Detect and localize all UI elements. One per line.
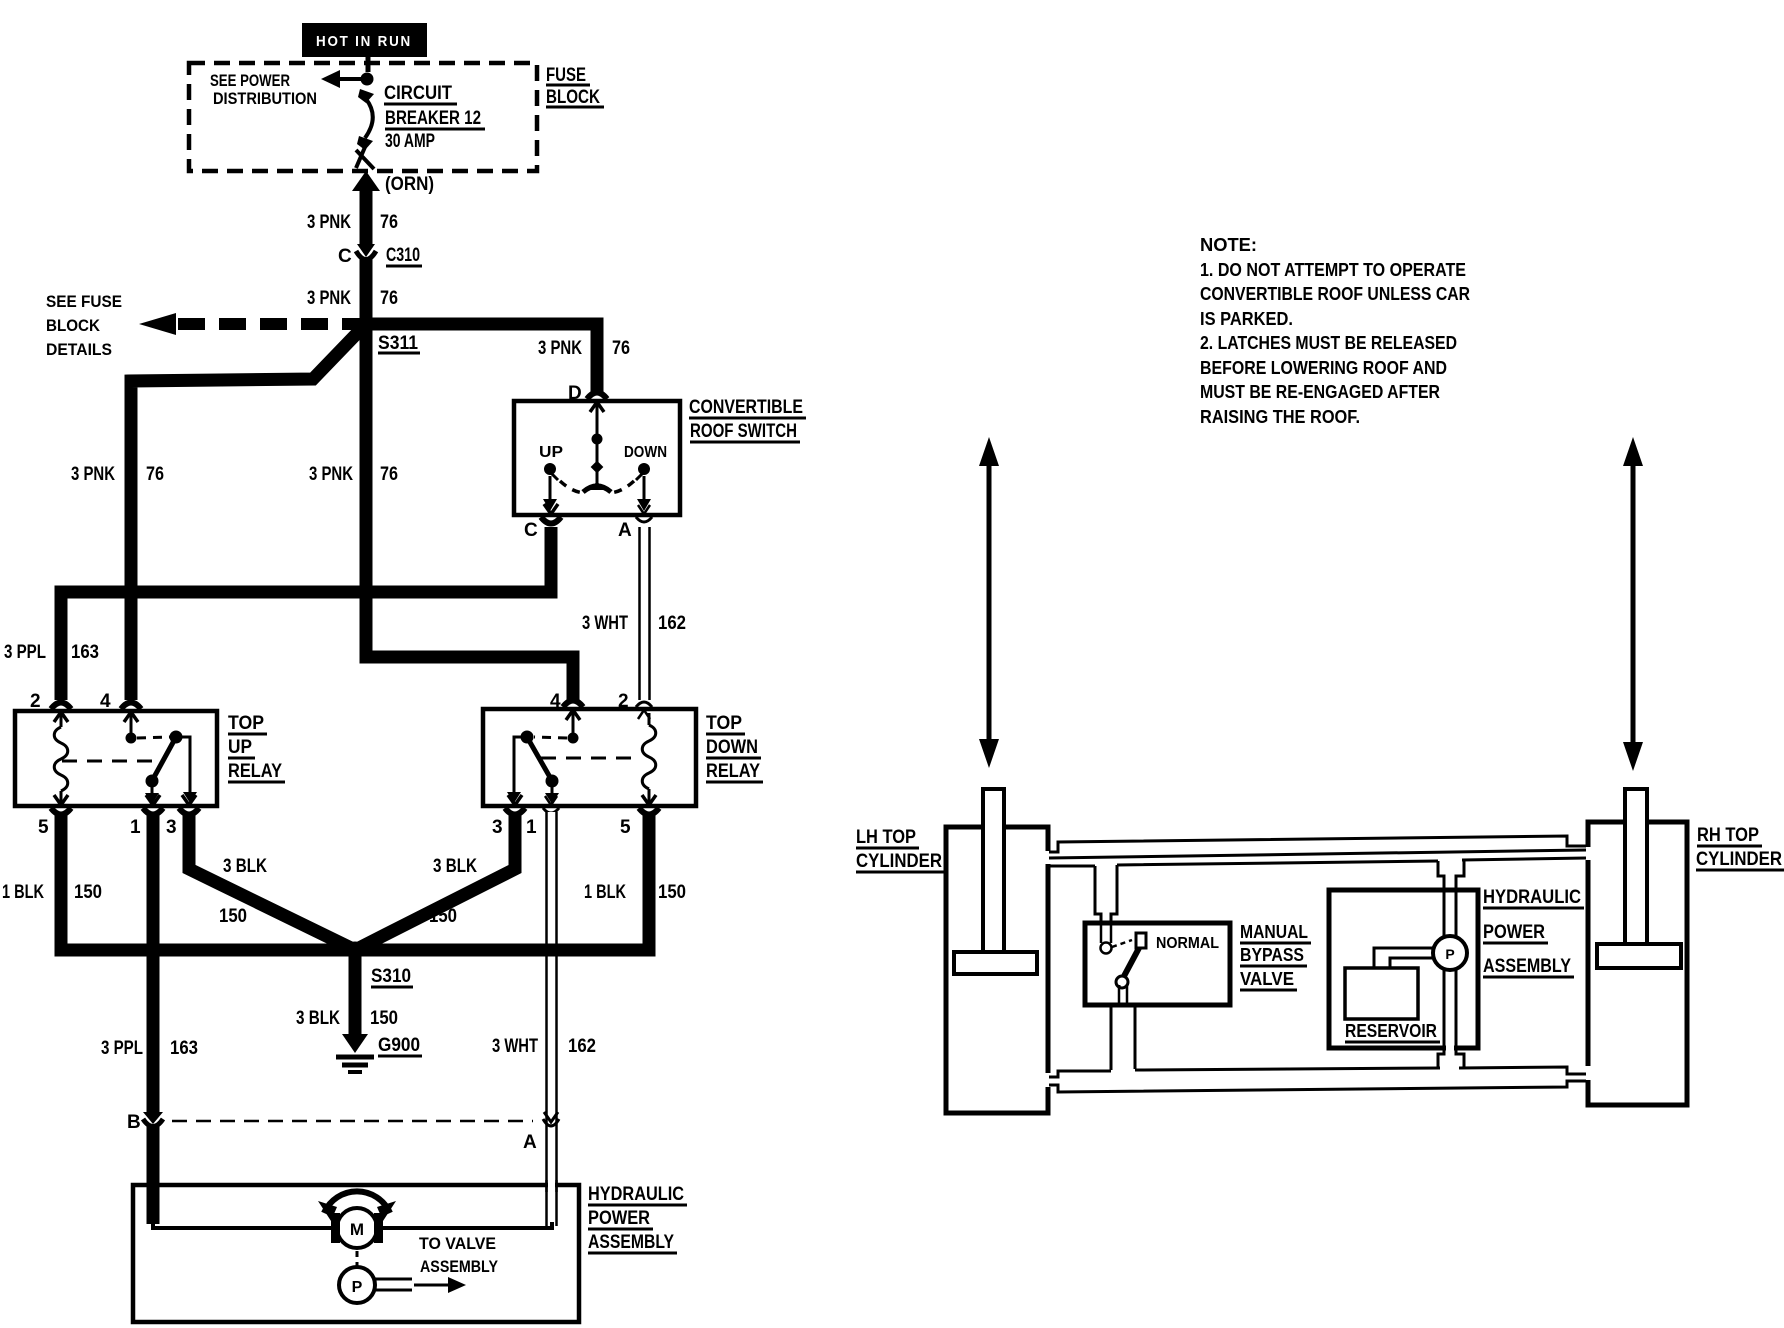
convertible roof switch box	[514, 401, 680, 515]
svg-text:DOWN: DOWN	[624, 444, 667, 461]
svg-text:3 PNK: 3 PNK	[538, 338, 582, 359]
svg-text:TOP: TOP	[228, 713, 264, 734]
connector C310	[354, 244, 378, 260]
svg-text:IS PARKED.: IS PARKED.	[1200, 309, 1293, 329]
svg-text:4: 4	[100, 691, 111, 712]
wire 3 WHT from switch A to top down relay pin 2	[640, 527, 650, 700]
wire 3 WHT inside assembly to motor	[380, 1222, 552, 1228]
valve drain pipe below box	[1111, 985, 1135, 1070]
svg-text:5: 5	[38, 817, 49, 838]
svg-text:3 PNK: 3 PNK	[307, 212, 351, 233]
dashed link in top down relay	[541, 757, 641, 760]
label 3 BLK 150 (ground wire)	[296, 1008, 398, 1029]
label 3 PNK 76 (left branch)	[71, 464, 164, 485]
svg-text:RH TOP: RH TOP	[1697, 825, 1759, 846]
terminal pin 2	[51, 703, 71, 723]
LH cylinder wall port top	[1043, 851, 1052, 864]
svg-text:TOP: TOP	[706, 713, 742, 734]
label TOP UP RELAY	[228, 713, 285, 782]
svg-text:TO VALVE: TO VALVE	[419, 1234, 496, 1253]
wire C310 to S311	[360, 258, 373, 324]
svg-text:3 PPL: 3 PPL	[4, 642, 46, 663]
svg-text:BYPASS: BYPASS	[1240, 945, 1304, 965]
switch UP contact	[543, 463, 558, 511]
label 3 BLK / 150 (left diagonal)	[219, 856, 267, 927]
dashed shaft motor to pump	[356, 1251, 359, 1267]
svg-text:P: P	[352, 1279, 363, 1296]
svg-text:163: 163	[170, 1038, 198, 1059]
terminal pin 5	[51, 795, 71, 815]
valve lever	[1123, 948, 1139, 978]
svg-text:A: A	[523, 1132, 537, 1153]
svg-text:162: 162	[568, 1036, 596, 1057]
svg-text:3 PPL: 3 PPL	[101, 1038, 143, 1059]
svg-text:HYDRAULIC: HYDRAULIC	[1483, 887, 1581, 908]
top hydraulic line divider	[1049, 850, 1586, 858]
svg-text:RESERVOIR: RESERVOIR	[1345, 1021, 1437, 1041]
label 3 PPL 163 (lower)	[101, 1038, 198, 1059]
RH cylinder piston plate	[1597, 944, 1681, 968]
svg-text:SEE POWER: SEE POWER	[210, 71, 290, 90]
terminal pin 4	[121, 703, 141, 723]
label G900	[378, 1035, 422, 1056]
RH cylinder piston rod	[1625, 789, 1647, 946]
svg-text:UP: UP	[539, 444, 563, 461]
LH cylinder piston rod	[983, 789, 1004, 954]
svg-text:30 AMP: 30 AMP	[385, 131, 435, 152]
label HYDRAULIC POWER ASSEMBLY	[588, 1184, 687, 1253]
terminal D of roof switch	[587, 393, 607, 413]
wire 3 BLK from pin 3 (top up) to splice S310	[189, 812, 353, 949]
reservoir tank	[1345, 968, 1418, 1019]
manual bypass valve box	[1085, 923, 1230, 1005]
valve stem inside box	[1101, 923, 1111, 943]
connector B	[143, 1112, 163, 1127]
svg-text:1 BLK: 1 BLK	[584, 882, 626, 903]
label 3 PNK 76 (switch branch)	[538, 338, 630, 359]
wire S311 diagonal to left branch	[131, 324, 366, 700]
svg-text:150: 150	[219, 906, 247, 927]
label CONVERTIBLE ROOF SWITCH	[689, 397, 806, 442]
svg-text:SEE FUSE: SEE FUSE	[46, 292, 122, 311]
top outer hydraulic line	[1049, 836, 1586, 852]
svg-text:CIRCUIT: CIRCUIT	[384, 83, 452, 104]
wire S310 to ground	[349, 950, 362, 1037]
LH cylinder wall port bottom	[1043, 1073, 1052, 1087]
svg-text:S311: S311	[378, 333, 418, 354]
label TOP DOWN RELAY	[706, 713, 763, 782]
svg-text:DOWN: DOWN	[706, 737, 758, 758]
svg-text:DETAILS: DETAILS	[46, 340, 112, 359]
circuit breaker CB12	[356, 73, 374, 170]
wire pin 5 (top up) down to ground bus	[61, 812, 355, 950]
pump feed pipe from top line	[1438, 860, 1464, 937]
valve pivot circle (port)	[1101, 943, 1112, 954]
svg-text:CONVERTIBLE: CONVERTIBLE	[689, 397, 803, 418]
svg-text:(ORN): (ORN)	[385, 174, 434, 195]
reservoir suction pipe to pump	[1374, 948, 1433, 968]
wire pin 1 (top up) down to connector B	[147, 812, 160, 1114]
svg-text:C: C	[338, 246, 352, 267]
svg-text:3 PNK: 3 PNK	[309, 464, 353, 485]
relay TOP DOWN box	[483, 709, 696, 806]
bypass valve feed pipe (T from top line)	[1095, 865, 1117, 926]
svg-text:UP: UP	[228, 737, 252, 758]
svg-text:MUST BE RE-ENGAGED AFTER: MUST BE RE-ENGAGED AFTER	[1200, 382, 1440, 402]
label MANUAL BYPASS VALVE	[1240, 922, 1311, 990]
terminal A of roof switch	[636, 505, 652, 522]
switch dashed wiper arcs	[560, 481, 634, 493]
svg-text:3: 3	[166, 817, 177, 838]
valve lever pivot	[1116, 976, 1128, 988]
terminal pin 5	[639, 795, 659, 815]
switch armature of top down relay	[507, 713, 579, 804]
note text block	[1200, 235, 1470, 427]
fuse block dashed box	[189, 63, 537, 171]
bottom hydraulic line upper edge	[1049, 1067, 1586, 1077]
svg-text:3 BLK: 3 BLK	[223, 856, 267, 877]
RH cylinder wall port top	[1584, 847, 1593, 860]
svg-text:3 BLK: 3 BLK	[296, 1008, 340, 1029]
LH stroke double arrow	[979, 437, 999, 768]
wire from HOT IN RUN into fuse block	[366, 57, 371, 72]
switch DOWN contact	[636, 463, 651, 511]
svg-text:ROOF SWITCH: ROOF SWITCH	[690, 421, 797, 442]
svg-text:150: 150	[370, 1008, 398, 1029]
label 3 PNK 76 (below C310)	[307, 288, 398, 309]
label 3 WHT 162 (lower)	[492, 1036, 596, 1057]
svg-text:163: 163	[71, 642, 99, 663]
svg-text:1: 1	[526, 817, 537, 838]
terminal pin 1	[543, 796, 559, 813]
wire ground bus to pin 5 (top down)	[355, 812, 649, 950]
label 3 BLK / 150 (right diagonal)	[429, 856, 477, 927]
pump outlet pipe down to bottom line	[1438, 969, 1464, 1068]
svg-text:BEFORE LOWERING ROOF AND: BEFORE LOWERING ROOF AND	[1200, 358, 1447, 378]
valve dashed normal position	[1112, 940, 1132, 947]
svg-text:C310: C310	[386, 245, 420, 266]
pump P	[339, 1267, 375, 1303]
svg-text:POWER: POWER	[1483, 922, 1545, 943]
svg-text:M: M	[350, 1220, 364, 1239]
svg-text:1. DO NOT ATTEMPT TO OPERATE: 1. DO NOT ATTEMPT TO OPERATE	[1200, 260, 1466, 280]
label FUSE BLOCK	[546, 65, 604, 108]
svg-text:DISTRIBUTION: DISTRIBUTION	[213, 89, 317, 108]
svg-text:RELAY: RELAY	[706, 761, 760, 782]
wire S311 down to elbow and top down relay pin 4	[366, 324, 573, 700]
svg-text:RELAY: RELAY	[228, 761, 282, 782]
svg-text:CONVERTIBLE ROOF UNLESS CAR: CONVERTIBLE ROOF UNLESS CAR	[1200, 284, 1470, 304]
svg-text:2: 2	[618, 691, 629, 712]
svg-text:3 PNK: 3 PNK	[307, 288, 351, 309]
wire switch C down-left to top up relay pin 2	[61, 527, 551, 700]
RH stroke double arrow	[1623, 437, 1643, 771]
relay TOP UP box	[15, 711, 217, 806]
svg-text:NOTE:: NOTE:	[1200, 235, 1257, 255]
svg-text:C: C	[524, 520, 538, 541]
label 3 PPL 163 (upper)	[4, 642, 99, 663]
wire 3 BLK from pin 3 (top down) to splice S310	[357, 812, 515, 949]
label SEE POWER DISTRIBUTION	[210, 71, 317, 108]
wire (ORN) arrow below fuse block	[352, 171, 380, 250]
label 1 BLK 150 (right)	[584, 882, 686, 903]
wire connector B to hydraulic power assembly	[147, 1124, 160, 1224]
label 3 PNK 76 (center branch)	[309, 464, 398, 485]
RH cylinder wall port bottom	[1584, 1066, 1593, 1080]
svg-text:B: B	[127, 1112, 141, 1133]
svg-text:ASSEMBLY: ASSEMBLY	[1483, 956, 1571, 977]
terminal C of roof switch	[541, 504, 561, 524]
RH top cylinder body	[1588, 822, 1687, 1105]
svg-text:76: 76	[146, 464, 164, 485]
svg-text:3: 3	[492, 817, 503, 838]
svg-text:162: 162	[658, 613, 686, 634]
terminal pin 2	[636, 702, 652, 719]
wire inside assembly to motor	[153, 1220, 334, 1228]
svg-text:BREAKER 12: BREAKER 12	[385, 108, 481, 129]
svg-text:76: 76	[380, 288, 398, 309]
label CIRCUIT BREAKER 12 / 30 AMP	[384, 83, 485, 152]
svg-text:76: 76	[380, 464, 398, 485]
dashed wire to fuse block details	[139, 313, 360, 335]
svg-text:2: 2	[30, 691, 41, 712]
svg-text:CYLINDER: CYLINDER	[1696, 849, 1782, 870]
label RESERVOIR	[1345, 1021, 1440, 1042]
terminal pin 4	[563, 701, 583, 721]
svg-text:150: 150	[429, 906, 457, 927]
svg-text:BLOCK: BLOCK	[46, 316, 101, 335]
svg-text:1: 1	[130, 817, 141, 838]
splice S310	[347, 942, 364, 959]
svg-text:RAISING THE ROOF.: RAISING THE ROOF.	[1200, 407, 1360, 427]
terminal pin 3	[505, 795, 525, 815]
motor rotation arrow	[318, 1191, 396, 1221]
label 3 PNK 76 (above C310)	[307, 212, 398, 233]
wire 3 WHT port through assembly box border	[547, 1180, 557, 1192]
svg-text:P: P	[1445, 946, 1454, 962]
svg-text:FUSE: FUSE	[546, 65, 586, 86]
terminal pin 1	[143, 795, 163, 815]
arrow to SEE POWER DISTRIBUTION	[321, 70, 367, 88]
svg-text:ASSEMBLY: ASSEMBLY	[420, 1257, 499, 1276]
svg-text:MANUAL: MANUAL	[1240, 922, 1308, 942]
label LH TOP CYLINDER	[856, 827, 945, 872]
motor M	[331, 1208, 383, 1248]
svg-text:BLOCK: BLOCK	[546, 87, 600, 108]
svg-text:76: 76	[612, 338, 630, 359]
splice S311	[358, 316, 375, 333]
dashed link in top up relay	[62, 760, 162, 763]
svg-text:HYDRAULIC: HYDRAULIC	[588, 1184, 684, 1205]
connector A	[543, 1112, 559, 1126]
svg-text:S310: S310	[371, 966, 411, 987]
pump circle P	[1433, 936, 1467, 970]
svg-text:3 WHT: 3 WHT	[582, 613, 628, 634]
svg-text:G900: G900	[378, 1035, 420, 1056]
svg-text:4: 4	[550, 691, 561, 712]
label S311	[378, 333, 420, 354]
svg-text:5: 5	[620, 817, 631, 838]
svg-text:3 PNK: 3 PNK	[71, 464, 115, 485]
coil of top down relay	[642, 713, 656, 802]
hydraulic power assembly box (electrical)	[133, 1185, 579, 1322]
svg-text:ASSEMBLY: ASSEMBLY	[588, 1232, 674, 1253]
bottom hydraulic line lower edge	[1049, 1081, 1586, 1092]
label 1 BLK 150 (left)	[2, 882, 102, 903]
label C C310	[338, 245, 422, 267]
ground G900	[336, 1034, 374, 1072]
svg-text:CYLINDER: CYLINDER	[856, 851, 942, 872]
label SEE FUSE BLOCK DETAILS	[46, 292, 122, 359]
svg-text:1 BLK: 1 BLK	[2, 882, 44, 903]
switch common pole from D	[583, 405, 611, 492]
pipe from pump to valve assembly	[375, 1277, 466, 1293]
wire 3 WHT from relay pin 1 down to connector A	[547, 812, 557, 1226]
svg-text:3 WHT: 3 WHT	[492, 1036, 538, 1057]
svg-text:3 BLK: 3 BLK	[433, 856, 477, 877]
label 3 WHT 162 (upper)	[582, 613, 686, 634]
svg-text:150: 150	[74, 882, 102, 903]
LH top cylinder body	[946, 827, 1048, 1113]
hydraulic power assembly inner box	[1329, 890, 1478, 1048]
label RH TOP CYLINDER	[1696, 825, 1784, 870]
svg-text:VALVE: VALVE	[1240, 969, 1294, 989]
label HYDRAULIC POWER ASSEMBLY (hydraulic side)	[1483, 887, 1584, 977]
svg-text:POWER: POWER	[588, 1208, 650, 1229]
wire S311 to roof switch D	[366, 324, 597, 392]
label TO VALVE ASSEMBLY	[419, 1234, 499, 1276]
LH cylinder piston plate	[954, 952, 1037, 974]
svg-text:HOT IN RUN: HOT IN RUN	[316, 33, 412, 50]
coil of top up relay	[54, 715, 68, 802]
switch armature of top up relay	[126, 715, 198, 804]
dashed line connector B to A	[172, 1120, 533, 1123]
svg-text:2. LATCHES MUST BE RELEASED: 2. LATCHES MUST BE RELEASED	[1200, 333, 1457, 353]
svg-text:150: 150	[658, 882, 686, 903]
top inner hydraulic line lower edge	[1049, 858, 1586, 866]
power tag HOT IN RUN	[302, 23, 427, 57]
label S310	[371, 966, 413, 987]
valve handle square	[1136, 933, 1146, 948]
svg-text:LH TOP: LH TOP	[856, 827, 916, 848]
svg-text:76: 76	[380, 212, 398, 233]
svg-text:A: A	[618, 520, 632, 541]
svg-text:NORMAL: NORMAL	[1156, 935, 1219, 952]
terminal pin 3	[179, 795, 199, 815]
